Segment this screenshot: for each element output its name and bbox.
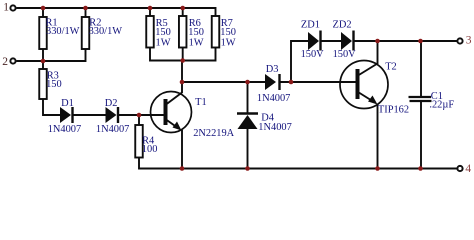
svg-text:1N4007: 1N4007: [48, 124, 81, 135]
capacitor C1: [409, 97, 432, 101]
svg-text:1N4007: 1N4007: [258, 122, 291, 133]
wire T2 collector up: [377, 41, 379, 64]
resistor R7: [212, 16, 220, 48]
diode D3: [265, 74, 280, 90]
wire R5-R7 bottom bus: [150, 48, 216, 61]
resistor R3: [39, 69, 47, 99]
wire R5 top lead: [149, 8, 151, 16]
wire C1 top lead: [420, 41, 422, 97]
svg-text:3: 3: [466, 34, 472, 46]
wire R6 bottom lead: [182, 48, 184, 61]
wire D1 to D2: [72, 114, 106, 116]
terminal 4: [457, 166, 462, 171]
svg-text:2N2219A: 2N2219A: [193, 128, 234, 139]
wire ZD1 to ZD2: [322, 40, 342, 42]
wire D2 to T1 base: [118, 114, 166, 116]
svg-text:TIP162: TIP162: [378, 104, 409, 115]
wire C1 bottom lead: [420, 102, 422, 169]
svg-text:150V: 150V: [301, 49, 325, 60]
wire D3 to T2 base: [281, 81, 357, 83]
diode D2: [106, 107, 119, 123]
svg-text:150: 150: [46, 79, 62, 90]
svg-text:1W: 1W: [189, 37, 204, 48]
wire R4 top lead: [138, 115, 140, 125]
wire R1 top lead: [42, 8, 44, 17]
svg-text:100: 100: [142, 144, 158, 155]
svg-text:D3: D3: [266, 64, 279, 75]
svg-text:ZD1: ZD1: [301, 20, 320, 31]
wire top rail from terminal 1 to R7: [17, 8, 216, 16]
zener ZD2: [341, 31, 354, 51]
wire bus tap down to T1 collector: [181, 61, 183, 94]
wire terminal 2 rail to R2 bottom: [17, 49, 86, 61]
wire T1 emitter down: [181, 130, 183, 169]
wire ZD2 to terminal 3: [355, 40, 458, 42]
wire T2 emitter down: [377, 104, 379, 169]
svg-text:330/1W: 330/1W: [46, 26, 80, 37]
wire R3 top lead: [42, 61, 44, 69]
wire collector node to D3: [182, 81, 265, 83]
resistor R2: [82, 17, 90, 49]
resistor R4: [135, 125, 143, 158]
svg-text:D2: D2: [105, 98, 118, 109]
terminal labels: [2, 2, 471, 175]
svg-text:T1: T1: [195, 97, 207, 108]
svg-text:4: 4: [465, 163, 471, 175]
svg-text:1N4007: 1N4007: [96, 124, 129, 135]
svg-text:1W: 1W: [221, 37, 236, 48]
svg-text:ZD2: ZD2: [333, 20, 352, 31]
wire D4 bottom lead: [247, 129, 249, 169]
terminal 2: [10, 58, 15, 63]
wire zener branch riser: [291, 41, 308, 82]
wire R1 bottom lead: [42, 49, 44, 61]
transistor T1: [151, 92, 192, 133]
zener ZD1: [308, 31, 321, 51]
wire R4 bottom lead and bottom rail: [139, 158, 457, 169]
resistor R1: [39, 17, 47, 49]
svg-text:.22µF: .22µF: [429, 99, 454, 110]
resistor R6: [179, 16, 187, 48]
wire R2 top lead: [85, 8, 87, 17]
transistor T2: [340, 61, 388, 109]
wire R3 bottom lead to D1: [43, 99, 60, 115]
wire D4 top lead: [247, 82, 249, 113]
terminal 3: [457, 38, 462, 43]
svg-text:1W: 1W: [156, 37, 171, 48]
diode D4 (vertical, cathode up): [237, 114, 258, 130]
svg-text:1: 1: [3, 2, 9, 14]
resistor R5: [146, 16, 154, 48]
svg-text:2: 2: [2, 56, 8, 68]
terminal 1: [10, 5, 15, 10]
wire R6 top lead: [182, 8, 184, 16]
svg-text:150V: 150V: [333, 49, 357, 60]
svg-text:T2: T2: [385, 61, 397, 72]
svg-text:D1: D1: [61, 98, 74, 109]
svg-text:1N4007: 1N4007: [257, 93, 290, 104]
svg-text:330/1W: 330/1W: [89, 26, 123, 37]
diode D1: [60, 107, 73, 123]
